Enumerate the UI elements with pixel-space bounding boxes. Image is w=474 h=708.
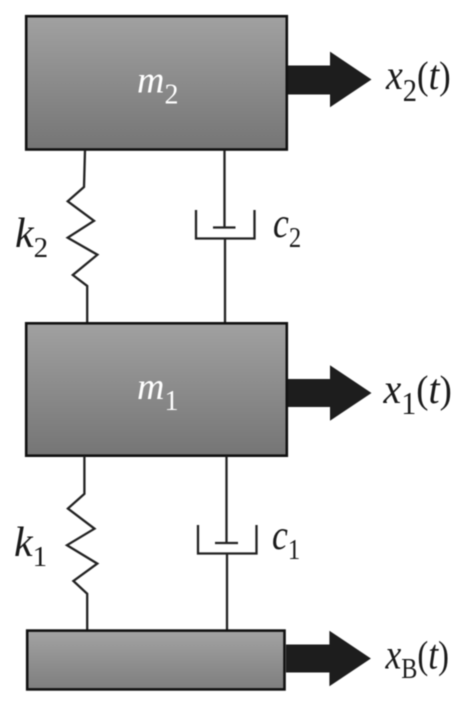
damper c2 rod lower [224, 239, 226, 324]
damper c2 cylinder [196, 210, 255, 239]
damper c2 rod upper [223, 150, 225, 228]
arrow xB [286, 631, 371, 687]
mass m1 box [26, 323, 287, 455]
base bar [27, 631, 284, 690]
label x1(t) [383, 365, 452, 421]
damper c1 piston [215, 542, 238, 544]
spring k1 [67, 456, 97, 631]
mass m2 box [26, 16, 287, 149]
arrow x1 [288, 365, 372, 421]
damper c2 piston [213, 226, 236, 228]
spring k2 [68, 150, 98, 323]
arrow x2 [288, 52, 372, 108]
damper c1 rod lower [226, 554, 228, 631]
label c1 [272, 512, 300, 565]
label x2(t) [385, 51, 451, 108]
svg-text:xB(t): xB(t) [385, 632, 449, 685]
damper c1 cylinder [198, 525, 257, 554]
label xB(t) [385, 632, 449, 685]
label c2 [273, 200, 301, 253]
damper c1 rod upper [225, 456, 227, 543]
